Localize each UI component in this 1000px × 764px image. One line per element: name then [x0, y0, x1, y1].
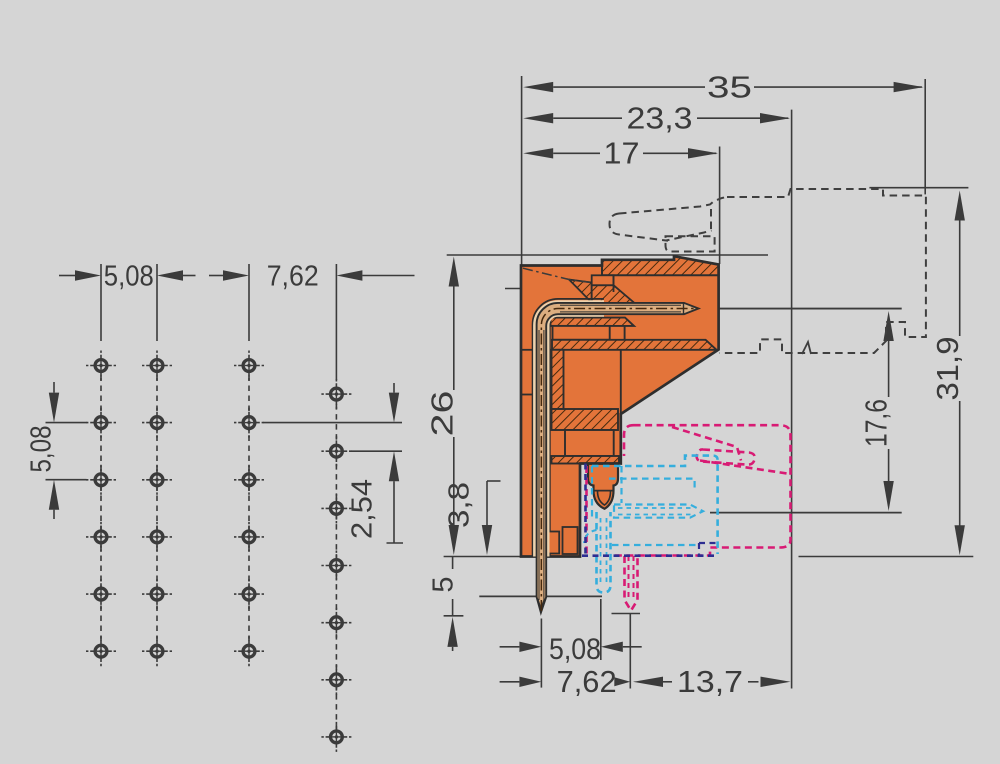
svg-text:26: 26	[425, 391, 460, 437]
holes pattern 2 left column	[234, 351, 264, 381]
dim 5,08 horizontal	[59, 275, 75, 277]
svg-text:31,9: 31,9	[930, 337, 965, 401]
dim 23,3	[791, 110, 793, 689]
shroud floor hatched band B	[552, 340, 717, 350]
funnel entry dash-dot diagonal	[523, 268, 592, 282]
housing lever (release latch) dashed	[610, 197, 728, 241]
pin channel inner wall	[549, 320, 551, 557]
pin channel interior (cream)	[541, 309, 604, 557]
magenta lever arm lines	[672, 427, 791, 474]
pin centerline dash-dot	[541, 309, 698, 611]
cyan bottom inner line	[612, 544, 700, 546]
cyan left verticals near tooth	[592, 466, 622, 520]
chamber box between bands	[553, 326, 610, 340]
cyan mating connector outline	[592, 456, 718, 554]
latch tooth inner lines	[594, 490, 613, 492]
connector body outline (orange)	[521, 256, 719, 556]
holes pattern 2 right column (offset 2,54)	[321, 379, 351, 409]
inner vertical above chamfer end	[620, 350, 622, 414]
svg-text:5: 5	[427, 576, 459, 592]
dim 7,62 horizontal	[209, 275, 223, 277]
latch tooth outline	[588, 464, 618, 509]
dim 5	[452, 557, 454, 570]
holes pattern 1	[86, 351, 116, 381]
lower hatched band D	[552, 456, 620, 464]
cyan pin down	[597, 512, 611, 593]
male pin (tan, bent 90°)	[537, 303, 699, 613]
svg-text:2,54: 2,54	[347, 479, 379, 539]
pin axis line right	[699, 308, 902, 310]
svg-text:13,7: 13,7	[677, 664, 743, 699]
bottom cyan-pin-tip level line	[479, 595, 602, 597]
svg-text:17,6: 17,6	[859, 399, 894, 447]
magenta pin down	[625, 556, 638, 611]
pin inner double lines	[560, 305, 681, 312]
hole pattern 2 column centerlines	[248, 264, 250, 341]
dim 26	[447, 254, 768, 256]
navy overlap dashes	[584, 464, 587, 557]
hole pattern 1 column centerlines	[100, 264, 102, 341]
body internal ticks	[521, 349, 535, 351]
left inner wall hatched	[552, 350, 564, 409]
pin channel wall (curved, follows bend)	[533, 299, 604, 557]
svg-text:3,8: 3,8	[444, 482, 476, 528]
dim 5,08 vertical left	[46, 422, 87, 424]
svg-text:5,08: 5,08	[104, 261, 154, 293]
grey dashed housing outline	[720, 189, 926, 353]
pin axis extension lines	[540, 619, 542, 688]
dim 13,7	[633, 677, 663, 687]
break symbol on housing bottom edge	[802, 342, 811, 354]
housing pusher block dashed	[666, 236, 715, 251]
magenta lever loop	[697, 449, 755, 464]
lower hatched band C	[552, 409, 619, 430]
svg-text:5,08: 5,08	[26, 426, 58, 473]
dim 7,62 bottom	[500, 681, 520, 683]
funnel hatched wedge right	[592, 285, 635, 303]
svg-text:5,08: 5,08	[549, 633, 601, 666]
pin tip inner V	[538, 599, 545, 609]
funnel slot	[592, 275, 614, 285]
lower housing reference line	[710, 512, 902, 514]
dim 2,54 vertical	[264, 422, 403, 424]
dim 3,8	[487, 480, 501, 482]
magenta mating connector outline	[587, 425, 791, 555]
svg-text:7,62: 7,62	[267, 261, 319, 293]
dim 35	[521, 76, 523, 266]
funnel hatched wedge left	[569, 280, 592, 303]
dim 31,9	[869, 187, 968, 189]
svg-text:35: 35	[707, 70, 752, 105]
svg-text:7,62: 7,62	[557, 664, 617, 699]
clamp internal boxes bottom	[548, 532, 559, 554]
svg-text:17: 17	[604, 136, 640, 171]
dim 17	[719, 147, 721, 265]
clamp box	[565, 430, 614, 456]
dim 5,08 bottom	[500, 646, 520, 648]
svg-text:23,3: 23,3	[627, 101, 693, 136]
cyan contact (horizontal)	[614, 505, 703, 518]
shroud floor hatched band A	[551, 318, 635, 326]
dim 17,6	[883, 311, 893, 341]
cyan inner top line	[609, 479, 695, 490]
body outline stroke	[521, 256, 719, 556]
top wall hatched band	[602, 256, 719, 275]
